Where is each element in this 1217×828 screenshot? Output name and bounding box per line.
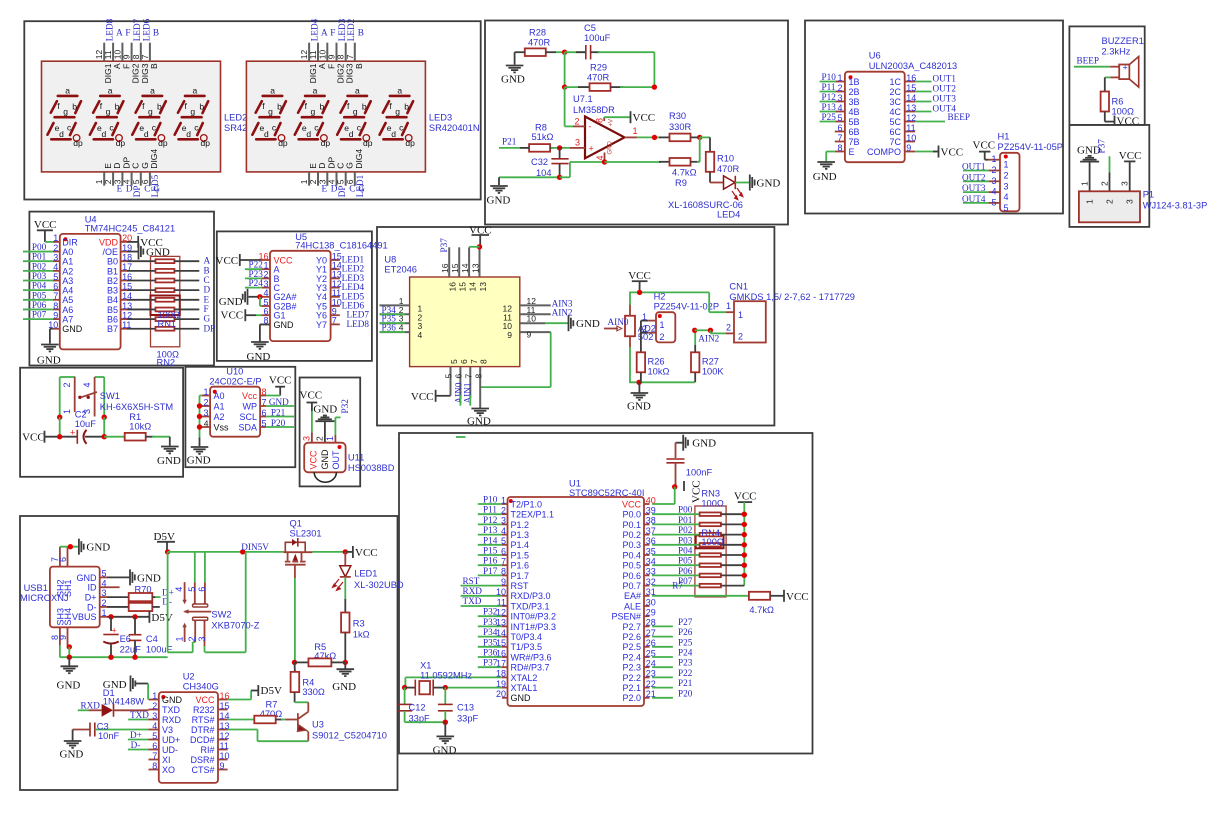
svg-text:VBUS: VBUS (72, 612, 97, 622)
power flag VCC (Q1) (345, 551, 352, 553)
display LED2 pin 1 (E) (103, 172, 105, 186)
svg-text:g: g (190, 107, 195, 117)
svg-text:1: 1 (1080, 181, 1090, 186)
svg-text:S9012_C5204710: S9012_C5204710 (312, 731, 387, 741)
U8 pin 15 (top) (458, 247, 460, 277)
display LED2 pin 3 (DP) (121, 172, 123, 186)
svg-text:dp: dp (73, 138, 83, 148)
svg-text:1: 1 (660, 320, 665, 330)
LED3 digit 1 segment f (256, 101, 262, 113)
svg-text:P01: P01 (678, 515, 693, 525)
svg-text:SR420401N: SR420401N (429, 123, 480, 133)
svg-text:g: g (268, 107, 273, 117)
svg-text:10kΩ: 10kΩ (648, 367, 670, 377)
svg-text:6: 6 (58, 557, 68, 562)
wire pin4 rail to R9 (605, 161, 662, 163)
svg-text:GND: GND (247, 351, 271, 363)
svg-text:13: 13 (906, 103, 916, 113)
svg-text:C13: C13 (457, 702, 474, 712)
svg-text:TM74HC245_C84121: TM74HC245_C84121 (85, 224, 175, 234)
U6 pin 3 (3B) (835, 101, 845, 103)
svg-text:2: 2 (837, 83, 842, 93)
LED3 digit 4 segment g (387, 116, 407, 119)
op-amp U7.1 pin 8 (+V) (603, 117, 605, 121)
wire R10 bottom to LED4 (709, 172, 711, 183)
svg-text:7C: 7C (889, 137, 901, 147)
CN1 pin 2 (726, 332, 734, 334)
wire D- (152, 606, 160, 608)
op-amp U7.1 pin 4 (GND) (604, 153, 606, 163)
svg-text:B5: B5 (107, 305, 118, 315)
LED2 digit 4 segment dp (201, 135, 208, 142)
wire/net label P07 (U4) (23, 318, 53, 320)
svg-text:E: E (204, 294, 210, 304)
svg-text:b: b (277, 101, 282, 111)
U2 pin 1 (GND) (149, 699, 159, 701)
svg-text:1B: 1B (849, 77, 860, 87)
U2 pin 11 (RI#) (218, 749, 228, 751)
svg-text:LM358DR: LM358DR (573, 105, 615, 115)
wire D+ (152, 596, 156, 598)
U2 pin 4 (V3) (149, 729, 159, 731)
connector P1 body (1079, 191, 1140, 222)
buzzer lower lead (1110, 76, 1119, 78)
svg-text:P0.6: P0.6 (622, 571, 641, 581)
svg-text:P10: P10 (822, 72, 837, 82)
RN3 resistor element 1 (700, 512, 721, 516)
svg-text:B7: B7 (107, 324, 118, 334)
net label OUT2 (H1) (963, 180, 989, 182)
svg-text:1N4148W: 1N4148W (103, 697, 145, 707)
display LED3 pin 9 (DIG2) (336, 43, 338, 62)
U1 pin 40 (VCC) (644, 503, 650, 505)
svg-text:2: 2 (62, 382, 72, 387)
wire to R4 (294, 662, 296, 671)
H1 pin 3 (989, 180, 1000, 182)
svg-text:1: 1 (837, 73, 842, 83)
svg-text:VCC: VCC (300, 390, 323, 402)
svg-text:20: 20 (496, 689, 506, 699)
wire R9 to R30 junction (699, 137, 701, 161)
U1 pin 21 (P2.0) (644, 697, 650, 699)
svg-text:XKB7070-Z: XKB7070-Z (211, 621, 259, 631)
svg-text:D5V: D5V (261, 685, 282, 697)
svg-text:10: 10 (527, 314, 537, 324)
LED3 digit 2 segment b (323, 101, 329, 113)
capacitor C? 100nF (666, 458, 684, 460)
wire SW2 bottom rail left (168, 651, 193, 653)
switch SW1 wires top loop (60, 376, 76, 378)
svg-text:OUT2: OUT2 (962, 172, 986, 182)
net label P36 (380, 331, 406, 333)
svg-text:DIG4: DIG4 (354, 149, 364, 169)
junction VCC/U8 pin13-14 (477, 244, 482, 249)
U4 pin 8 (A6) (53, 308, 60, 310)
svg-text:DIN5V: DIN5V (241, 542, 269, 552)
wire R4 to U3 collector (294, 692, 296, 702)
display LED2 pin 11 (A) (112, 43, 114, 62)
wire/net label P13 (U1) (478, 534, 502, 536)
svg-text:470R: 470R (717, 164, 740, 174)
wire R3 to GND (344, 633, 346, 663)
svg-text:9: 9 (58, 635, 68, 640)
H2 pin 2 (648, 332, 656, 334)
svg-text:16: 16 (906, 73, 916, 83)
U1 pin 27 (P2.6) (644, 636, 650, 638)
svg-text:LED4: LED4 (310, 18, 320, 41)
wire pin8 to VCC (604, 116, 630, 118)
wire/net label P01 (U4) (23, 260, 53, 262)
wire R9 right (691, 161, 700, 163)
resistor R10 (706, 152, 714, 172)
svg-text:D-: D- (87, 602, 97, 612)
svg-text:R27: R27 (702, 357, 719, 367)
ground GND (C32) (498, 177, 500, 185)
switch SW2 pin 1 (arrow) (184, 627, 186, 643)
connector H1 body (1000, 153, 1020, 212)
svg-text:P27: P27 (678, 617, 693, 627)
LED1 anode lead (344, 552, 346, 566)
svg-text:R4: R4 (302, 678, 314, 688)
U5 pin 8 (GND) (261, 323, 270, 325)
RN3 resistor element 4 (700, 543, 721, 547)
svg-text:GND: GND (57, 680, 81, 692)
wire USB1 pin2 to R (107, 606, 129, 608)
LED3 digit 2 segment e (295, 123, 301, 135)
wire U8 pin9 to GND rail (550, 332, 552, 387)
U5 pin 14 (Y1) (331, 268, 340, 270)
svg-text:13: 13 (471, 263, 481, 273)
svg-text:VCC: VCC (941, 147, 964, 159)
display LED3 pin 7 (B) (354, 43, 356, 62)
wire D5V rail (165, 549, 170, 554)
svg-text:P0.2: P0.2 (622, 530, 641, 540)
svg-text:5: 5 (53, 272, 58, 282)
wire/net label P37 (U1) (478, 666, 502, 668)
U2 pin 15 (R232) (218, 709, 228, 711)
svg-text:11.0592MHz: 11.0592MHz (420, 671, 472, 681)
svg-text:TXD: TXD (162, 705, 181, 715)
svg-text:P22: P22 (678, 668, 693, 678)
svg-text:3: 3 (837, 93, 842, 103)
U5 pin 11 (Y4) (331, 296, 340, 298)
svg-text:U6: U6 (869, 51, 881, 61)
wire P1 pin1 (1089, 162, 1091, 192)
RN3 resistor element 7 (700, 574, 721, 578)
svg-text:P06: P06 (32, 300, 47, 310)
svg-text:GND: GND (62, 324, 83, 334)
svg-text:B3: B3 (107, 286, 118, 296)
svg-text:A5: A5 (62, 295, 73, 305)
svg-text:8: 8 (595, 118, 605, 123)
U1 pin 18 (XTAL2) (502, 676, 508, 678)
svg-text:VCC: VCC (633, 112, 656, 124)
wire R1 to GND (146, 436, 155, 438)
LED3 digit 4 segment dp (405, 135, 412, 142)
svg-text:A0: A0 (214, 391, 225, 401)
svg-text:GND: GND (627, 401, 651, 413)
svg-text:C3: C3 (97, 722, 109, 732)
svg-text:GND: GND (467, 416, 491, 428)
svg-text:5: 5 (837, 113, 842, 123)
IC U6 ULN2003A body (845, 72, 905, 163)
U6 pin 11 (6C) (905, 131, 915, 133)
svg-text:dp: dp (405, 138, 415, 148)
svg-text:5C: 5C (889, 117, 901, 127)
svg-text:VCC: VCC (628, 270, 651, 282)
LED3 digit 3 segment g (344, 116, 364, 119)
svg-text:USB1: USB1 (24, 583, 48, 593)
svg-text:22uF: 22uF (120, 644, 142, 654)
svg-text:P33: P33 (483, 617, 498, 627)
wire U4 pin12 to RN (127, 318, 156, 320)
U5 pin 12 (Y3) (331, 287, 340, 289)
ground GND (U4) (41, 344, 59, 346)
svg-text:P21: P21 (678, 678, 693, 688)
U1 pin 12 (INT0#/P3.2) (502, 615, 508, 617)
svg-text:A7: A7 (62, 315, 73, 325)
svg-text:P23: P23 (678, 658, 693, 668)
svg-text:G: G (204, 314, 211, 324)
svg-text:P11: P11 (822, 82, 836, 92)
svg-text:OUT4: OUT4 (962, 194, 986, 204)
LED3 digit 3 segment f (341, 101, 347, 113)
wire R29 right (611, 86, 624, 88)
svg-text:P2.3: P2.3 (622, 663, 641, 673)
svg-text:B: B (354, 63, 364, 69)
U1 pin 25 (P2.4) (644, 656, 650, 658)
display LED2 pin 10 (F) (121, 43, 123, 62)
U8 pin 1 (left) (380, 304, 410, 306)
svg-text:XI: XI (162, 755, 171, 765)
RN resistor element 4 (156, 288, 175, 292)
svg-text:P36: P36 (382, 323, 397, 333)
wire RN3 element 5 to VCC rail (721, 554, 744, 556)
svg-text:100Ω: 100Ω (701, 537, 724, 547)
U10 pin 5 (SDA) (260, 426, 266, 428)
svg-text:c: c (194, 123, 199, 133)
U6 pin 16 (1C) (905, 81, 915, 83)
RN resistor element 1 (156, 259, 175, 263)
wire to op-amp pin 2 (564, 87, 566, 126)
svg-text:a: a (108, 86, 113, 96)
LED3 digit 4 segment c (402, 123, 408, 135)
switch SW2 pin 6 (204, 583, 206, 603)
wire LED4 to GND (735, 182, 749, 184)
junction SW1 left (57, 415, 62, 420)
connector CN1 body (734, 301, 766, 342)
svg-text:WP: WP (243, 401, 258, 411)
display LED3 pin 10 (F) (326, 43, 328, 62)
switch SW2 pin 5 (194, 583, 196, 603)
svg-text:B: B (153, 28, 159, 38)
U1 pin 17 (RD#/P3.7) (502, 666, 508, 668)
AD2 top lead (629, 304, 631, 316)
svg-text:P37: P37 (439, 238, 449, 253)
svg-text:GND: GND (219, 296, 243, 308)
svg-text:COMPO: COMPO (867, 147, 901, 157)
IC U10 body (210, 387, 260, 437)
ground GND (USB rail) (68, 657, 70, 665)
resistor network RN1 outline (151, 296, 180, 316)
svg-text:GND: GND (86, 542, 110, 554)
wire/net label P10 (U1) (478, 503, 502, 505)
wire U2 pin16 to D5V (228, 699, 252, 701)
wire/net label P04 (U4) (23, 289, 53, 291)
svg-text:P1: P1 (1143, 190, 1154, 200)
U8 pin 11 (right) (520, 313, 551, 315)
AD2 bottom lead (629, 336, 631, 347)
svg-text:7: 7 (140, 54, 150, 59)
ground flag GND (USB1 top) (78, 539, 80, 555)
net label OUT4 (H1) (963, 202, 989, 204)
wire VCC rail to CN1 (629, 291, 709, 293)
SW2 lower contact plate (193, 617, 208, 620)
svg-text:Vcc: Vcc (242, 391, 258, 401)
svg-text:R29: R29 (590, 63, 607, 73)
LED2 digit 4 segment d (179, 138, 198, 141)
wire RN3 element 4 to VCC rail (721, 544, 744, 546)
RN resistor element 2 (156, 269, 175, 273)
svg-text:g: g (311, 107, 316, 117)
display LED2 pin 6 (DIG4) (149, 172, 151, 186)
display LED2 pin 8 (DIG3) (140, 43, 142, 62)
svg-text:B: B (149, 63, 159, 69)
LED2 digit 3 segment dp (158, 135, 165, 142)
wire/net label P32 (U1) (478, 615, 502, 617)
diode D1 1N4148W (78, 709, 89, 711)
U1 pin 22 (P2.1) (644, 687, 650, 689)
connector H2 body (656, 312, 675, 342)
svg-text:d: d (144, 129, 149, 139)
H1 pin 2 (989, 170, 1000, 172)
svg-text:RXD/P3.0: RXD/P3.0 (511, 591, 551, 601)
wire/net label P16 (U1) (478, 564, 502, 566)
U8 pin 9 (right) (520, 331, 551, 333)
wire Q1 drain down (294, 565, 296, 578)
svg-text:LED1: LED1 (355, 174, 365, 197)
svg-text:EA#: EA# (624, 591, 641, 601)
wire/net label TXD (U1) (461, 605, 502, 607)
RN3 resistor element 3 (700, 533, 721, 537)
svg-text:3: 3 (1004, 181, 1009, 191)
svg-text:4: 4 (399, 323, 404, 333)
svg-text:8: 8 (473, 374, 483, 379)
svg-text:15: 15 (220, 701, 230, 711)
U8 pin 5 (bottom) (450, 367, 452, 396)
ground GND (U6) (817, 161, 835, 163)
U4 pin 17 (B1) (121, 270, 127, 272)
svg-text:LED8: LED8 (105, 18, 115, 41)
svg-text:P07: P07 (32, 310, 47, 320)
ground GND (U8 pin8) (471, 408, 489, 410)
svg-text:F: F (204, 304, 209, 314)
H1 pin 5 (989, 202, 1000, 204)
svg-text:4: 4 (102, 578, 107, 588)
display LED3 pin 2 (D) (317, 172, 319, 186)
svg-text:UD+: UD+ (162, 735, 180, 745)
wire C3 to GND (72, 730, 74, 741)
SW2 upper contact plate (193, 604, 208, 607)
svg-text:A: A (204, 256, 211, 266)
svg-text:HS0038BD: HS0038BD (348, 463, 395, 473)
switch SW2 pin 2 (194, 622, 196, 643)
U5 pin 7 (Y7) (331, 323, 340, 325)
U5 pin 2 (B) (261, 277, 270, 279)
svg-text:B: B (204, 265, 210, 275)
op-amp U7.1 triangle (585, 117, 625, 159)
section box: buzzer (1069, 26, 1144, 125)
wire 100nF to GND (676, 442, 684, 444)
svg-text:P04: P04 (32, 281, 47, 291)
wire Q1 to VCC (312, 551, 345, 553)
svg-text:DTR#: DTR# (191, 725, 215, 735)
wire RN to net F (174, 308, 199, 310)
wire U1 pin39 to RN3 (652, 513, 700, 515)
svg-text:7: 7 (469, 359, 479, 364)
svg-text:dp: dp (158, 138, 168, 148)
display LED3 pin 3 (DP) (326, 172, 328, 186)
svg-text:24C02C-E/P: 24C02C-E/P (209, 376, 261, 386)
LED2 digit 1 segment b (75, 101, 81, 113)
svg-text:6: 6 (140, 179, 150, 184)
svg-text:P37: P37 (1097, 139, 1107, 154)
wire U6 pin8 to GND (826, 151, 835, 153)
svg-text:5: 5 (991, 197, 996, 207)
switch SW2 pin 3 (204, 622, 206, 647)
svg-text:a: a (355, 86, 360, 96)
svg-text:g: g (106, 107, 111, 117)
resistor R26 (637, 352, 645, 372)
svg-text:GND: GND (608, 141, 614, 155)
svg-text:330Ω: 330Ω (302, 687, 325, 697)
svg-text:5: 5 (187, 587, 197, 592)
U2 pin 14 (RTS#) (218, 719, 228, 721)
ground GND (R3) (344, 662, 346, 668)
svg-text:P34: P34 (483, 627, 498, 637)
svg-text:P12: P12 (483, 515, 498, 525)
wire/net label P11 (U1) (478, 513, 502, 515)
svg-text:GND: GND (757, 178, 781, 190)
svg-text:R1: R1 (129, 412, 141, 422)
wire RN to net DP (174, 328, 199, 330)
U6 pin 15 (2C) (905, 91, 915, 93)
section box: SW1 reset (20, 368, 183, 477)
wire R7 to U3 base (276, 719, 283, 721)
svg-text:d: d (349, 129, 354, 139)
svg-text:P03: P03 (32, 271, 47, 281)
svg-text:2B: 2B (849, 87, 860, 97)
svg-text:5: 5 (1004, 203, 1009, 213)
LED3 digit 4 segment d (383, 138, 402, 141)
wire U1 pin36 to RN3 (652, 544, 700, 546)
svg-text:1: 1 (53, 233, 58, 243)
svg-text:VCC: VCC (1119, 150, 1142, 162)
svg-text:R232: R232 (193, 705, 215, 715)
wire H2 to R26 (641, 320, 648, 322)
RN resistor element 7 (156, 317, 175, 321)
IC U4 body (60, 234, 121, 350)
svg-text:P0.5: P0.5 (622, 561, 641, 571)
U4 pin 15 (B3) (121, 289, 127, 291)
wire VCC rail RN3 (743, 502, 745, 585)
H2 pin 1 (648, 320, 656, 322)
wire/net label P02 (U4) (23, 270, 53, 272)
LED3 digit 3 segment b (365, 101, 371, 113)
switch SW1 contacts (74, 377, 76, 412)
svg-text:2: 2 (660, 332, 665, 342)
wire U11 pin1 (335, 416, 340, 418)
